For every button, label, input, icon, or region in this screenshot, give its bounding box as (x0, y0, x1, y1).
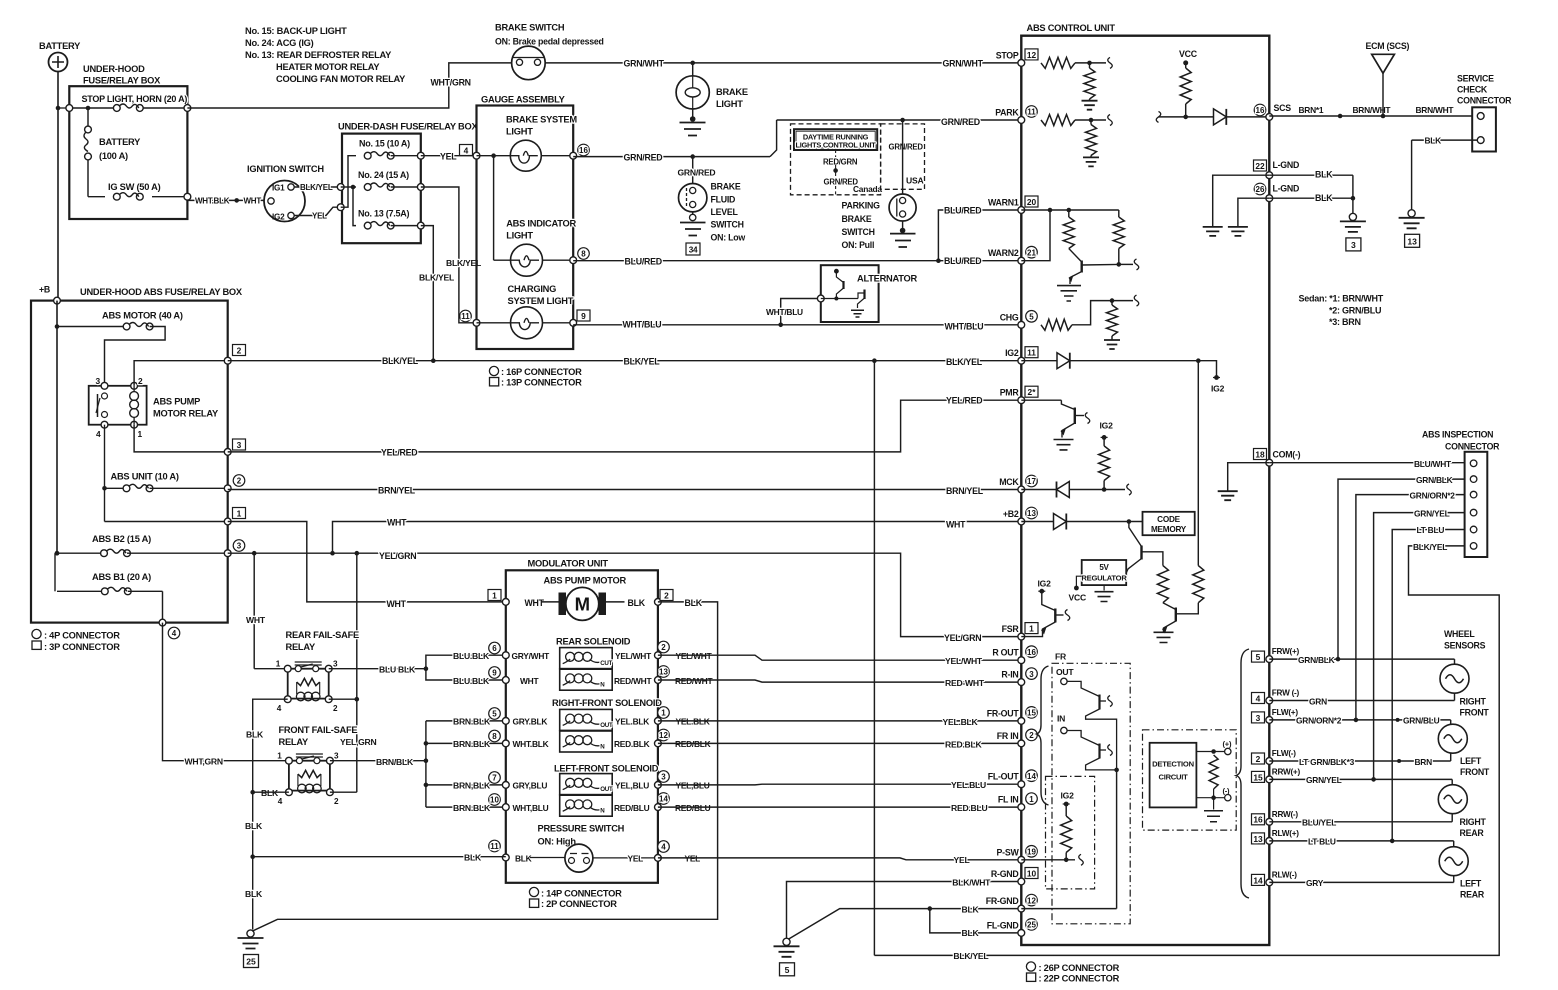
ground 5 (783, 938, 790, 945)
svg-text:3: 3 (334, 752, 339, 761)
svg-text:1: 1 (138, 429, 143, 439)
ABS pin FL-GND (1018, 930, 1025, 937)
svg-text:11: 11 (461, 312, 470, 321)
svg-text:LIGHTS CONTROL UNIT: LIGHTS CONTROL UNIT (795, 140, 876, 149)
wire BLK rear relay pin4 chain to ground 25 (253, 699, 288, 929)
svg-text:1: 1 (661, 709, 666, 718)
svg-text:11: 11 (1027, 348, 1036, 358)
svg-text:+B2: +B2 (1003, 509, 1019, 519)
wire BLK FR-GND diagonal to ground 5 (788, 909, 1021, 940)
legend 26P 22P connectors (1026, 962, 1035, 971)
ABS pin WARN1 (1018, 207, 1025, 214)
ABS pin STOP (1018, 60, 1025, 67)
ABS pin SCS (1266, 114, 1273, 121)
svg-text:19: 19 (1027, 848, 1036, 857)
wire YEL/BLU to FL-OUT (658, 783, 1021, 786)
svg-text:3: 3 (96, 376, 101, 386)
svg-text:WHT: WHT (244, 197, 262, 206)
svg-text:GRY: GRY (1306, 878, 1324, 888)
svg-text:STOP LIGHT, HORN (20 A): STOP LIGHT, HORN (20 A) (82, 94, 188, 104)
svg-text:4: 4 (96, 429, 101, 439)
svg-text:RRW(+): RRW(+) (1272, 767, 1301, 776)
svg-text:BLU/RED: BLU/RED (944, 256, 981, 266)
svg-text:COOLING FAN MOTOR RELAY: COOLING FAN MOTOR RELAY (276, 74, 406, 84)
diode +B2 (1021, 521, 1053, 523)
svg-text:WHT/BLU: WHT/BLU (623, 320, 662, 330)
ABS pin L-GND 26 (1266, 195, 1273, 202)
ABS pin PMR (1018, 397, 1025, 404)
node under-hood box right IG (184, 193, 191, 200)
brace wheel sensor pins (1236, 649, 1249, 898)
svg-text:OUT: OUT (600, 786, 613, 793)
svg-text:RED.BLK: RED.BLK (945, 739, 982, 749)
rear relay pins (284, 665, 291, 672)
svg-text:BLK: BLK (245, 821, 263, 831)
svg-text:WHT: WHT (387, 518, 407, 528)
svg-text:Sedan: *1: BRN/WHT: Sedan: *1: BRN/WHT (1299, 294, 1384, 304)
svg-text:2: 2 (237, 477, 242, 486)
svg-text:: 26P CONNECTOR: : 26P CONNECTOR (1039, 963, 1120, 973)
svg-text:DETECTION: DETECTION (1152, 760, 1194, 769)
wire BLK/YEL No13 to IG2 line (421, 226, 434, 361)
ABS pin FL-OUT (1018, 781, 1025, 788)
under-dash fuse/relay box (342, 134, 421, 244)
fuse No13 7.5A (364, 222, 371, 229)
svg-text:12: 12 (1027, 50, 1037, 60)
svg-text:BLK/YEL: BLK/YEL (419, 273, 454, 283)
svg-text:5: 5 (492, 710, 497, 719)
wire detection (+) (1196, 751, 1224, 753)
node box-right 2c (224, 485, 231, 492)
svg-text:LEVEL: LEVEL (711, 207, 739, 217)
svg-text:FL IN: FL IN (998, 795, 1019, 805)
ABS pin FR-GND (1018, 905, 1025, 912)
svg-text:YEL/GRN: YEL/GRN (944, 633, 981, 643)
svg-text:21: 21 (1027, 248, 1036, 257)
svg-text:WARN2: WARN2 (988, 248, 1019, 258)
svg-text:FRW (-): FRW (-) (1272, 689, 1300, 698)
svg-text:3: 3 (237, 440, 242, 450)
svg-text:LEFT: LEFT (1460, 756, 1482, 766)
svg-text:ABS INDICATOR: ABS INDICATOR (506, 219, 576, 229)
svg-text:BLK: BLK (246, 730, 264, 740)
wire BRN/BLK front relay pin3 bundle (330, 760, 426, 762)
svg-text:14: 14 (1253, 875, 1263, 885)
svg-text:IG1: IG1 (272, 184, 285, 193)
svg-text:9: 9 (581, 311, 586, 321)
wire WHT/GRN stop-horn to brake switch (187, 63, 511, 108)
svg-text:GRN/ORN*2: GRN/ORN*2 (1410, 490, 1456, 500)
svg-text:BLK: BLK (962, 928, 980, 938)
svg-text:BLK/YEL: BLK/YEL (953, 951, 988, 961)
svg-text:2: 2 (1029, 731, 1034, 740)
svg-text:2: 2 (138, 376, 143, 386)
svg-text:SWITCH: SWITCH (711, 220, 744, 230)
svg-text:GRN/WHT: GRN/WHT (624, 59, 665, 69)
wire BLK/YEL to IG2 pin (228, 360, 1022, 362)
wire BRN to ECM and service check (1269, 115, 1472, 117)
wire IG2 power tap (1198, 361, 1216, 376)
svg-text:FSR: FSR (1002, 624, 1020, 634)
svg-text:ABS MOTOR (40 A): ABS MOTOR (40 A) (102, 311, 183, 321)
ABS pin FLW(-) (1266, 758, 1273, 765)
node gauge pin8 (570, 257, 577, 264)
right rear wheel sensor (1438, 785, 1467, 814)
transistor WARN (1069, 249, 1082, 263)
fuse No24 15A (364, 184, 371, 191)
svg-text:4: 4 (172, 629, 177, 638)
svg-text:BRN/WHT: BRN/WHT (1416, 105, 1455, 115)
svg-text:RED.BLK: RED.BLK (614, 739, 650, 749)
svg-text:BRAKE: BRAKE (711, 182, 741, 192)
svg-text:BLU/RED: BLU/RED (944, 206, 981, 216)
resistor PARK input (1041, 115, 1075, 126)
svg-text:YEL.BLU: YEL.BLU (951, 780, 986, 790)
svg-text:14: 14 (1027, 772, 1036, 781)
svg-text:CHECK: CHECK (1457, 85, 1488, 95)
svg-text:3: 3 (1351, 240, 1356, 250)
svg-text:4: 4 (278, 797, 283, 806)
wire YEL to P-SW (658, 858, 1021, 860)
svg-text:FR-GND: FR-GND (986, 896, 1019, 906)
svg-text:BLK: BLK (1315, 170, 1333, 180)
5V regulator box (1082, 560, 1127, 585)
svg-text:RED/BLU: RED/BLU (614, 803, 650, 813)
solenoid rear n (502, 677, 509, 684)
svg-text:RED/WHT: RED/WHT (675, 676, 713, 686)
wire relay pin2 to node 2 BLK/YEL (134, 361, 228, 386)
node box-right 3 (224, 449, 231, 456)
wire BRN/YEL to MCK pin (228, 489, 1022, 491)
svg-text:1: 1 (1029, 624, 1034, 634)
svg-text:BRN.BLK: BRN.BLK (453, 803, 491, 813)
svg-text:BLK: BLK (464, 853, 482, 863)
svg-text:BRAKE SYSTEM: BRAKE SYSTEM (506, 115, 577, 125)
svg-text:CONNECTOR: CONNECTOR (1445, 442, 1500, 452)
svg-text:GRN/RED: GRN/RED (624, 152, 663, 162)
node box-right 2 (224, 357, 231, 364)
svg-text:RED.BLU: RED.BLU (951, 803, 987, 813)
svg-text:*2: GRN/BLU: *2: GRN/BLU (1329, 306, 1381, 316)
svg-text:YEL.BLK: YEL.BLK (676, 717, 710, 727)
ABS pin R-IN (1018, 679, 1025, 686)
wire B2 fuse vertical to B1 (54, 553, 56, 591)
svg-text:LIGHT: LIGHT (506, 231, 533, 241)
svg-text:FR IN: FR IN (997, 731, 1019, 741)
svg-text:BRAKE: BRAKE (716, 87, 748, 97)
wire GRN/RED USA drop (900, 118, 905, 123)
ABS pin PARK (1018, 117, 1025, 124)
ABS pin WARN2 (1018, 257, 1025, 264)
ABS pin R OUT (1018, 657, 1025, 664)
svg-text:12: 12 (659, 731, 668, 740)
svg-text:IG2: IG2 (1005, 348, 1019, 358)
svg-text:SWITCH: SWITCH (842, 227, 875, 237)
svg-text:REAR: REAR (1460, 828, 1485, 838)
svg-text:YEL/WHT: YEL/WHT (615, 651, 652, 661)
svg-text:YEL.BLK: YEL.BLK (943, 717, 979, 727)
node gauge pin4 (473, 152, 480, 159)
ABS pin R-GND (1018, 878, 1025, 885)
svg-text:8: 8 (581, 250, 586, 259)
relay pin4 node (101, 421, 108, 428)
ground 25 (247, 930, 254, 937)
relay pin2 node (131, 382, 138, 389)
svg-text:16: 16 (1256, 106, 1265, 115)
ABS pin RRW(+) (1266, 776, 1273, 783)
svg-text:11: 11 (490, 842, 499, 851)
ABS pin FRW(+) (1266, 656, 1273, 663)
svg-text:+B: +B (39, 285, 50, 295)
svg-text:ALTERNATOR: ALTERNATOR (857, 274, 918, 284)
svg-text:USA: USA (906, 176, 923, 186)
node under-dash right No15 (417, 152, 424, 159)
svg-text:9: 9 (492, 669, 497, 678)
svg-text:No. 24: ACG (IG): No. 24: ACG (IG) (245, 38, 314, 48)
ABS pin FLW(+) (1266, 717, 1273, 724)
svg-text:BLK/YEL: BLK/YEL (1413, 542, 1447, 552)
svg-text:IG2: IG2 (1211, 384, 1225, 394)
wire detection (-) (1196, 797, 1224, 799)
wire 4 node drop WHT/GRN to front relay (163, 623, 289, 761)
wire BLK service check to ground 13 (1412, 139, 1478, 141)
svg-text:BLK: BLK (962, 904, 980, 914)
ABS pin IG2 (1018, 357, 1025, 364)
wire battery fuse to IG SW fuse (87, 160, 89, 197)
wire YEL riser to No15 fuse (341, 156, 356, 208)
wire IG2 YEL to under-dash box (294, 207, 341, 215)
svg-text:WHT/GRN: WHT/GRN (431, 78, 471, 88)
node under-hood box right stop (184, 105, 191, 112)
svg-text:: 13P CONNECTOR: : 13P CONNECTOR (501, 378, 582, 388)
svg-text:8: 8 (492, 732, 497, 741)
svg-text:BRN.BLK: BRN.BLK (453, 739, 491, 749)
daytime running lights control unit dashed box (791, 124, 881, 195)
wire COM internal ground (1228, 463, 1270, 491)
svg-text:RELAY: RELAY (286, 642, 316, 652)
svg-text:1: 1 (277, 752, 282, 761)
wire ABS motor fuse to relay pin3 (105, 327, 166, 386)
node gauge pin9 (570, 319, 577, 326)
pin 9 badge gauge (577, 310, 590, 321)
svg-text:LEFT-FRONT SOLENOID: LEFT-FRONT SOLENOID (554, 764, 659, 774)
svg-text:(+): (+) (1223, 740, 1232, 749)
svg-text:No. 13: REAR DEFROSTER RELAY: No. 13: REAR DEFROSTER RELAY (245, 50, 392, 60)
svg-text:BLU/WHT: BLU/WHT (1414, 459, 1452, 469)
svg-text:R-IN: R-IN (1001, 670, 1018, 680)
wire BLK/YEL to No24 fuse (341, 186, 356, 188)
node under-dash right No13 (417, 222, 424, 229)
svg-text:FRW(+): FRW(+) (1272, 647, 1300, 656)
svg-text:FRONT: FRONT (1460, 767, 1490, 777)
transistor code memory lower (1163, 603, 1176, 610)
svg-text:ON: Pull: ON: Pull (842, 240, 875, 250)
wire BLU/RED gauge pin8 to WARN2 (573, 260, 1021, 262)
svg-text:1: 1 (492, 590, 497, 600)
svg-text:WHT,BLU: WHT,BLU (513, 803, 549, 813)
wire GRY RLW- from sensor (1453, 876, 1455, 883)
right front wheel sensor (1440, 664, 1469, 693)
svg-text:OUT: OUT (1056, 667, 1074, 677)
svg-text:22: 22 (1255, 161, 1265, 171)
wire WHT/BLU branch to alternator (778, 323, 783, 328)
svg-text:WHT: WHT (246, 615, 266, 625)
svg-text:BRAKE SWITCH: BRAKE SWITCH (495, 23, 565, 33)
svg-text:2: 2 (333, 704, 338, 713)
relay pin3 node (101, 382, 108, 389)
svg-text:GRN/RED: GRN/RED (941, 117, 980, 127)
svg-text:CHARGING: CHARGING (508, 284, 557, 294)
svg-text:2: 2 (661, 643, 666, 652)
wire GRN/RED gauge to PARK pin (573, 156, 770, 158)
wire BLK/WHT R-GND to ground 5 (787, 882, 1022, 939)
svg-text:CHG: CHG (1000, 312, 1019, 322)
svg-text:26: 26 (1256, 185, 1265, 194)
svg-text:WARN1: WARN1 (988, 198, 1019, 208)
detection circuit dashed box (1143, 730, 1237, 830)
svg-text:REAR SOLENOID: REAR SOLENOID (556, 637, 631, 647)
svg-text:BLK: BLK (685, 598, 703, 608)
svg-text:FR: FR (1055, 652, 1067, 662)
fuse STOP LIGHT HORN 20A (113, 105, 120, 112)
svg-text:WHT: WHT (520, 676, 539, 686)
svg-text:LEFT: LEFT (1460, 879, 1482, 889)
wire B1 to node 4 (162, 591, 164, 622)
solenoid left-front out (502, 782, 509, 789)
battery B+ terminal (49, 53, 68, 72)
svg-text:RIGHT: RIGHT (1460, 817, 1487, 827)
ground detection circuit (1213, 798, 1215, 810)
svg-text:WHT: WHT (525, 598, 545, 608)
svg-text:YEL,GRN: YEL,GRN (340, 737, 376, 747)
svg-text:SENSORS: SENSORS (1444, 641, 1486, 651)
svg-text:13: 13 (1253, 834, 1263, 844)
svg-text:GRY/WHT: GRY/WHT (512, 651, 551, 661)
svg-text:YEL/RED: YEL/RED (381, 448, 417, 458)
svg-text:RIGHT: RIGHT (1460, 697, 1487, 707)
svg-text:4: 4 (661, 843, 666, 852)
svg-text:FR-OUT: FR-OUT (987, 708, 1020, 718)
svg-text:: 22P CONNECTOR: : 22P CONNECTOR (1039, 974, 1120, 984)
diode SCS (1214, 109, 1227, 125)
wire YEL/GRN to FSR pin (357, 553, 1022, 636)
svg-text:BRN/WHT: BRN/WHT (1353, 105, 1392, 115)
wire rear relay pin2 to YEL/GRN vertical (329, 698, 357, 700)
ground brake fluid switch (692, 212, 694, 221)
svg-text:3: 3 (1029, 670, 1034, 679)
svg-text:GRN/YEL: GRN/YEL (1306, 775, 1342, 785)
brake fluid level switch (679, 184, 707, 212)
resistor PARK pulldown (1090, 120, 1092, 125)
left rear wheel sensor (1439, 847, 1468, 876)
ground WARN transistor (1057, 286, 1081, 301)
svg-text:OUT: OUT (600, 722, 613, 729)
svg-text:13: 13 (1407, 236, 1417, 246)
svg-text:SCS: SCS (1274, 103, 1292, 113)
pin 8 badge gauge (578, 248, 590, 260)
node gauge pin16 (570, 152, 577, 159)
node under-hood box left (66, 105, 73, 112)
node under-dash right No24 (417, 184, 424, 191)
wire BRN FLW- from sensor (1450, 753, 1452, 761)
ABS pin +B2 (1018, 518, 1025, 525)
brace solenoid pins group (1037, 666, 1049, 805)
wire battery feed inside ABS box (56, 301, 58, 327)
svg-text:10: 10 (490, 796, 499, 805)
node box-right 1 (224, 518, 231, 525)
svg-text:ABS PUMP: ABS PUMP (153, 397, 200, 407)
svg-text:RLW(-): RLW(-) (1272, 870, 1297, 879)
svg-text:BRN.BLK: BRN.BLK (453, 717, 491, 727)
wire BLK/YEL No24 to charging light (421, 187, 477, 323)
svg-text:: 4P CONNECTOR: : 4P CONNECTOR (44, 631, 120, 641)
wire YEL/BLK to FR-OUT (658, 720, 1021, 722)
svg-text:R OUT: R OUT (992, 648, 1019, 658)
node under-dash left BLK/YEL (337, 184, 344, 191)
svg-text:WHT/BLU: WHT/BLU (945, 322, 984, 332)
svg-text:GRN/ORN*2: GRN/ORN*2 (1296, 716, 1342, 726)
svg-text:25: 25 (1027, 921, 1036, 930)
under-hood ABS fuse/relay box (31, 301, 228, 623)
svg-text:GRN/RED: GRN/RED (678, 168, 716, 178)
svg-text:MEMORY: MEMORY (1151, 525, 1187, 534)
wire WHT node1 to modulator pump (228, 522, 506, 602)
wire YEL No15 to gauge assembly (421, 155, 477, 157)
svg-text:BLK: BLK (261, 788, 279, 798)
svg-text:UNDER-DASH FUSE/RELAY BOX: UNDER-DASH FUSE/RELAY BOX (338, 122, 478, 132)
svg-text:ON: Low: ON: Low (711, 233, 746, 243)
wire relay pin4 drop (104, 425, 106, 522)
svg-text:ABS UNIT (10 A): ABS UNIT (10 A) (111, 472, 179, 482)
svg-text:BLK: BLK (515, 853, 532, 863)
svg-text:4: 4 (1256, 693, 1261, 703)
svg-text:WHT: WHT (387, 599, 407, 609)
svg-text:No. 15: BACK-UP LIGHT: No. 15: BACK-UP LIGHT (245, 26, 347, 36)
svg-text:IGNITION SWITCH: IGNITION SWITCH (247, 164, 324, 174)
svg-text:: 16P CONNECTOR: : 16P CONNECTOR (501, 367, 582, 377)
svg-text:BRN*1: BRN*1 (1299, 105, 1324, 115)
ABS pin FR-OUT (1018, 718, 1025, 725)
ABS pin L-GND 22 (1266, 172, 1273, 179)
legend gauge connectors (489, 366, 498, 375)
svg-text:BRN,BLK: BRN,BLK (453, 781, 491, 791)
ABS pin FSR (1018, 633, 1025, 640)
svg-text:13: 13 (1027, 509, 1036, 518)
svg-text:COM(-): COM(-) (1273, 450, 1301, 460)
wire IG2 internal bus down (1197, 361, 1199, 566)
svg-text:L-GND: L-GND (1273, 160, 1300, 170)
svg-text:YEL: YEL (440, 152, 457, 162)
svg-text:BRN/YEL: BRN/YEL (378, 486, 416, 496)
solenoid rear cut (502, 652, 509, 659)
svg-text:5: 5 (1256, 652, 1261, 662)
svg-text:3: 3 (237, 542, 242, 551)
svg-text:FLUID: FLUID (711, 195, 736, 205)
svg-text:BLU/RED: BLU/RED (625, 257, 662, 267)
svg-text:FRONT: FRONT (1460, 708, 1490, 718)
ABS pin FR IN (1018, 740, 1025, 747)
wire BLU/BLK rear relay pin3 to solenoid pins (329, 668, 426, 670)
ground 13 (1408, 210, 1415, 217)
wire RED/WHT to R-IN (658, 680, 1021, 682)
legend modulator connectors (529, 887, 538, 896)
wire P-SW internal (1021, 859, 1075, 861)
wire VCC to SCS diode (1156, 111, 1161, 122)
wire RED/GRN dashed inside DRL (835, 150, 837, 157)
svg-text:15: 15 (1027, 709, 1036, 718)
svg-text:LIGHT: LIGHT (716, 99, 743, 109)
svg-text:YEL/WHT: YEL/WHT (945, 656, 983, 666)
